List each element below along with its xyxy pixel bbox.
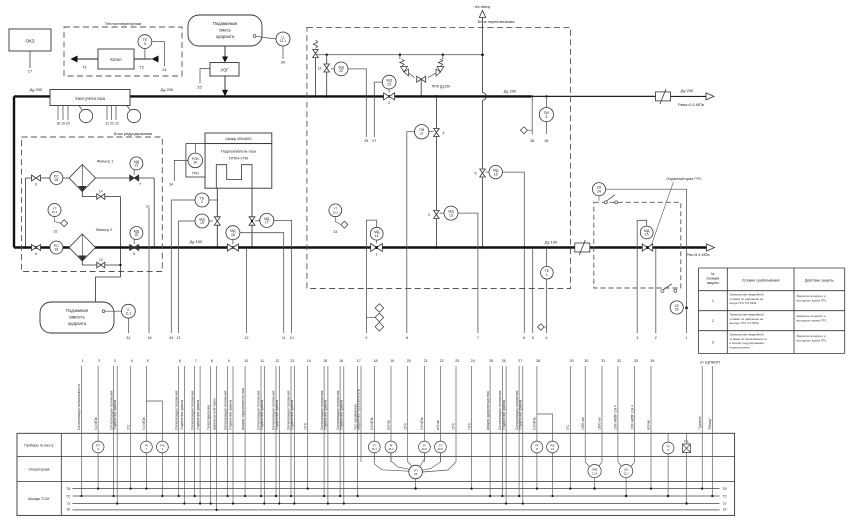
valve heater right [249, 217, 255, 225]
svg-text:Фильтр 2: Фильтр 2 [96, 227, 114, 232]
node drain junction [119, 264, 121, 266]
svg-text:ГПН: ГПН [192, 172, 200, 176]
enclosure guard crane [594, 202, 681, 288]
svg-text:FSL: FSL [684, 440, 690, 444]
svg-text:выходного крана ГРС: выходного крана ГРС [797, 318, 828, 322]
svg-text:25: 25 [197, 86, 201, 90]
svg-text:33: 33 [634, 359, 638, 363]
wire conv col23 [423, 462, 457, 472]
wire stub 2 [655, 248, 657, 334]
svg-text:м3/час: м3/час [387, 419, 391, 430]
node upper exit pipe [671, 95, 707, 97]
svg-text:10: 10 [99, 258, 103, 262]
svg-text:12.1: 12.1 [52, 210, 58, 214]
svg-text:ТИ: ТИ [66, 487, 71, 491]
instrument LL11.2 [102, 310, 105, 313]
instrument QS12.1 [620, 465, 633, 478]
wire stub 34 long [170, 200, 172, 333]
svg-text:Операторная: Операторная [29, 468, 50, 472]
svg-text:РI: РI [390, 443, 393, 447]
svg-text:27: 27 [518, 359, 522, 363]
svg-text:ТС: ТС [723, 494, 728, 498]
svg-text:16: 16 [339, 359, 343, 363]
svg-text:5: 5 [147, 359, 149, 363]
svg-text:4: 4 [546, 336, 548, 340]
svg-text:1600 мм: 1600 мм [598, 416, 602, 430]
instrument ZS24 [592, 183, 605, 196]
switch contact bottom [661, 290, 664, 293]
wire stub 8 [406, 132, 408, 333]
valve 9 [32, 175, 41, 181]
instrument TE1 [541, 266, 554, 279]
wire stub 5b [532, 248, 534, 334]
svg-text:31: 31 [126, 336, 130, 340]
wire metering stubs A [57, 106, 59, 121]
node upper main dots [314, 95, 317, 98]
svg-text:2: 2 [388, 101, 390, 105]
svg-text:2: 2 [655, 336, 657, 340]
svg-text:Блок переключения: Блок переключения [478, 19, 515, 24]
svg-text:18 19 20: 18 19 20 [56, 122, 69, 126]
arrow upper exit [706, 93, 714, 100]
valve 4 [434, 129, 440, 137]
svg-text:30: 30 [194, 161, 198, 165]
svg-text:Сигнализация загазованности: Сигнализация загазованности [77, 384, 81, 430]
svg-text:15: 15 [323, 359, 327, 363]
svg-text:3: 3 [428, 213, 430, 217]
wire vent line lower [482, 178, 484, 248]
instrument PI3 [545, 96, 547, 107]
svg-text:7: 7 [195, 359, 197, 363]
wire upper branch [25, 177, 154, 179]
svg-text:м3/час: м3/час [436, 419, 440, 430]
svg-text:РI: РI [373, 443, 376, 447]
svg-text:7: 7 [139, 183, 141, 187]
svg-text:краном-регулятором: краном-регулятором [212, 398, 216, 430]
svg-text:26.6: 26.6 [422, 447, 428, 451]
svg-text:Сигнализация положения: Сигнализация положения [174, 390, 178, 430]
instrument PI26.6 [419, 441, 431, 453]
svg-text:Фильтр 1: Фильтр 1 [97, 159, 115, 164]
node relief header dots [326, 54, 328, 56]
svg-text:защиты: защиты [707, 281, 720, 285]
svg-text:Управление краном: Управление краном [275, 399, 279, 430]
wire vent jump [483, 93, 487, 101]
wire pozhar [711, 366, 713, 496]
block boiler Kotel [98, 49, 134, 69]
svg-text:10: 10 [244, 359, 248, 363]
svg-text:выходного крана ГРС: выходного крана ГРС [797, 338, 828, 342]
branch col5 [146, 401, 162, 496]
svg-text:РI: РI [423, 443, 426, 447]
svg-text:25: 25 [675, 308, 679, 312]
svg-text:15°С: 15°С [303, 422, 307, 430]
svg-text:одоранта: одоранта [216, 34, 235, 39]
instrument MD23 [382, 75, 396, 89]
svg-text:Авария подогревателя газа: Авария подогревателя газа [241, 388, 245, 430]
node dots reduction [119, 246, 121, 248]
instrument PI26.2 [385, 441, 397, 453]
wire valve12 line [326, 55, 328, 97]
wire branch left riser [24, 178, 26, 248]
svg-text:29: 29 [570, 359, 574, 363]
instrument PI7 [141, 441, 153, 453]
svg-text:Узел учета газа: Узел учета газа [75, 96, 106, 101]
svg-text:18: 18 [148, 336, 152, 340]
svg-text:26: 26 [502, 359, 506, 363]
wire stub 18 [148, 208, 150, 333]
svg-text:от ЩПКОП: от ЩПКОП [700, 360, 720, 365]
valve 14 [97, 194, 105, 200]
switch contact top [604, 201, 607, 204]
svg-text:24: 24 [471, 359, 475, 363]
instrument QT12.1 [48, 204, 61, 217]
instrument MD18 [226, 226, 240, 240]
instrument PCV30 [194, 144, 196, 153]
bus line TI [73, 488, 720, 490]
valve 1 [371, 244, 383, 252]
instrument ZS25 [670, 301, 683, 314]
valve guard crane [642, 244, 652, 251]
filter F2 [69, 234, 95, 261]
instrument MD20 [133, 240, 135, 245]
svg-text:5: 5 [475, 172, 477, 176]
wire MD22 stub 26 [348, 69, 366, 137]
svg-text:14: 14 [307, 359, 311, 363]
wire T1 pipe [77, 58, 98, 60]
svg-text:27: 27 [372, 139, 376, 143]
instrument TE5 [144, 49, 146, 60]
svg-text:Рвх=5,4 МПа: Рвх=5,4 МПа [686, 253, 710, 257]
svg-text:ЛАВ: ЛАВ [592, 468, 598, 472]
block flow metering [50, 90, 130, 106]
instrument PI26.1 [368, 441, 380, 453]
wire lower main pipeline Du100 [14, 246, 707, 248]
svg-text:Управление краном: Управление краном [260, 399, 264, 430]
svg-text:1: 1 [82, 359, 84, 363]
svg-text:12: 12 [275, 359, 279, 363]
block GPN [186, 144, 205, 177]
wire OKZ stub [29, 51, 31, 68]
svg-text:ПГПН-УГМ: ПГПН-УГМ [229, 156, 248, 160]
wire branch right riser [153, 178, 155, 248]
arrow lower exit [707, 244, 715, 251]
svg-text:Котел: Котел [110, 57, 122, 62]
wire filter2 drain [82, 261, 120, 265]
sensor diamonds stub9 [375, 304, 384, 313]
wire filter1 drain [82, 192, 120, 197]
svg-text:70°С: 70°С [467, 422, 471, 430]
matrix row line 1 [17, 456, 735, 458]
svg-text:0,6 МПа: 0,6 МПа [533, 417, 537, 430]
instrument TE2 [171, 199, 195, 201]
svg-text:20: 20 [134, 233, 138, 237]
insulating joint lower [575, 243, 590, 252]
wire UOG left stub [200, 69, 210, 84]
relief valve left [313, 40, 317, 49]
wire stub 12 [246, 248, 248, 334]
table protection grid [699, 267, 845, 269]
svg-text:21: 21 [424, 359, 428, 363]
valve 7 [130, 175, 139, 181]
svg-text:18: 18 [231, 233, 235, 237]
svg-text:выходного крана ГРС: выходного крана ГРС [797, 298, 828, 302]
svg-text:ППК Ду150: ППК Ду150 [432, 85, 451, 89]
svg-text:21 22 23: 21 22 23 [105, 122, 118, 126]
svg-text:13: 13 [176, 336, 180, 340]
svg-text:1: 1 [376, 253, 378, 257]
wire relief header [317, 54, 483, 56]
svg-text:9: 9 [365, 336, 367, 340]
svg-text:емкость: емкость [69, 315, 85, 320]
svg-text:3: 3 [636, 336, 638, 340]
svg-text:26.5: 26.5 [438, 447, 444, 451]
svg-text:30: 30 [281, 61, 285, 65]
svg-text:Ду 100: Ду 100 [190, 239, 203, 244]
heater coil [216, 165, 252, 189]
svg-text:Сигнализация положения: Сигнализация положения [223, 390, 227, 430]
svg-text:одоранта: одоранта [68, 321, 87, 326]
svg-text:Т2: Т2 [139, 65, 144, 70]
svg-text:34: 34 [650, 359, 654, 363]
svg-text:8: 8 [35, 252, 37, 256]
wire MD23 stub 27 [374, 82, 382, 137]
svg-text:31: 31 [601, 359, 605, 363]
svg-text:13: 13 [449, 213, 453, 217]
instrument MD19 [178, 220, 195, 222]
svg-text:Сигнализация положения: Сигнализация положения [190, 390, 194, 430]
svg-text:34: 34 [169, 336, 173, 340]
svg-text:10% НКПР СН 4: 10% НКПР СН 4 [614, 405, 618, 430]
arrow vent stack [479, 11, 485, 18]
svg-text:28: 28 [536, 359, 540, 363]
svg-text:14: 14 [375, 234, 379, 238]
svg-text:Управление краном: Управление краном [113, 399, 117, 430]
svg-text:15°С: 15°С [403, 422, 407, 430]
svg-text:26: 26 [54, 178, 58, 182]
svg-text:11: 11 [282, 336, 286, 340]
instrument MD22 [331, 68, 334, 70]
svg-text:12: 12 [245, 336, 249, 340]
svg-text:28: 28 [544, 139, 548, 143]
valve 6 [130, 245, 139, 251]
block UOG [210, 63, 239, 77]
svg-text:5°С: 5°С [566, 424, 570, 430]
svg-text:Шкаф 400х600: Шкаф 400х600 [225, 137, 251, 141]
svg-text:0,6 МПа: 0,6 МПа [370, 417, 374, 430]
sensor diamond 32 [61, 220, 68, 227]
instrument QT12.2 [329, 204, 342, 217]
wire vent line upper [482, 18, 484, 93]
wire drain riser [96, 197, 121, 305]
svg-text:3°С: 3°С [126, 424, 130, 430]
instrument MD13 [440, 212, 445, 214]
svg-text:Теплогенераторная: Теплогенераторная [105, 21, 141, 26]
svg-text:1000 мм: 1000 мм [581, 416, 585, 430]
svg-text:5,4 МПа: 5,4 МПа [142, 417, 146, 430]
relief PPK right [442, 55, 444, 59]
svg-text:33: 33 [333, 230, 337, 234]
block OKZ [9, 29, 51, 51]
svg-text:Т1: Т1 [82, 65, 87, 70]
svg-text:13: 13 [290, 359, 294, 363]
svg-text:Ду 200: Ду 200 [161, 87, 174, 92]
branch col28 [537, 414, 553, 496]
svg-text:ТИ: ТИ [723, 487, 728, 491]
wire conv col30 [585, 462, 589, 467]
relief PPK left [399, 55, 401, 59]
valve 8 [32, 245, 41, 251]
wire conv col33 [631, 462, 635, 467]
wire UOG down [224, 76, 226, 90]
svg-text:Блок редуцирования: Блок редуцирования [114, 131, 153, 136]
svg-text:6: 6 [179, 359, 181, 363]
wire valve1 bracket [366, 220, 376, 333]
valve 10 [97, 262, 105, 268]
wire conv col31 [599, 462, 602, 467]
block heater cabinet head [205, 133, 272, 144]
svg-text:10: 10 [290, 336, 294, 340]
svg-text:18: 18 [54, 248, 58, 252]
svg-text:УОГ: УОГ [220, 68, 229, 73]
instrument PC26 [50, 172, 63, 185]
svg-text:переключения: переключения [730, 345, 750, 349]
svg-text:Шкафы ТСАУ: Шкафы ТСАУ [28, 497, 50, 501]
svg-text:17: 17 [357, 359, 361, 363]
arrow T1 [71, 56, 78, 63]
svg-text:26: 26 [414, 472, 418, 476]
valve 5 [480, 169, 486, 177]
instrument PC18 [50, 241, 63, 254]
svg-text:Ду 200: Ду 200 [681, 88, 694, 93]
instrument TU4 [667, 433, 669, 442]
svg-text:19: 19 [200, 221, 204, 225]
svg-text:Подземная: Подземная [66, 308, 88, 313]
instrument MD15 [640, 226, 653, 239]
svg-text:7: 7 [477, 336, 479, 340]
wire conv col32 [618, 462, 622, 467]
svg-text:16: 16 [494, 172, 498, 176]
instrument PI8 [531, 441, 543, 453]
svg-text:8: 8 [406, 336, 408, 340]
svg-text:10% НКПР СН 4: 10% НКПР СН 4 [630, 405, 634, 430]
svg-text:На свечу: На свечу [475, 5, 491, 9]
svg-text:26.1: 26.1 [372, 447, 378, 451]
wire conv col21 [420, 453, 424, 466]
svg-text:26: 26 [364, 139, 368, 143]
svg-text:Телеуправление: Телеуправление [206, 405, 210, 430]
bus line TP [73, 509, 720, 511]
instrument LAB11.3 [588, 465, 601, 478]
instrument PIS10 [547, 441, 559, 453]
svg-text:входе ГРС 5,6 МПа: входе ГРС 5,6 МПа [730, 301, 757, 305]
svg-text:24: 24 [162, 68, 166, 72]
svg-text:24: 24 [597, 189, 601, 193]
svg-text:6: 6 [133, 252, 135, 256]
svg-text:Подогреватель газа: Подогреватель газа [221, 150, 257, 154]
sensor diamond 4b [538, 324, 545, 331]
svg-text:20: 20 [407, 359, 411, 363]
svg-text:Рвых=0,3 МПа: Рвых=0,3 МПа [678, 103, 705, 107]
svg-text:3: 3 [114, 359, 116, 363]
sensor diamond 33 [341, 221, 348, 228]
node heater pipe dots [216, 246, 218, 248]
svg-text:17: 17 [28, 70, 32, 74]
vessel odorant tank [40, 302, 114, 333]
svg-text:2: 2 [712, 319, 714, 323]
svg-text:10: 10 [551, 447, 554, 451]
wire conv col18 [374, 453, 409, 471]
svg-text:Управление краном: Управление краном [196, 399, 200, 430]
valve three-way PPK [417, 76, 426, 82]
svg-text:9: 9 [228, 359, 230, 363]
wire stub 4b [546, 248, 548, 334]
svg-text:Подаваемая: Подаваемая [213, 21, 237, 26]
svg-text:4: 4 [443, 131, 445, 135]
svg-text:Действие защиты: Действие защиты [805, 279, 834, 283]
instrument PT6 [92, 441, 104, 453]
block heater body [205, 144, 272, 189]
instrument UP26 [409, 465, 423, 479]
wire heater left pipe [216, 188, 218, 247]
wire upper main pipeline Du200 [14, 95, 531, 97]
wire stub 1 [686, 308, 688, 333]
wire PCV30 left [174, 160, 188, 181]
svg-text:0,6 МПа: 0,6 МПа [420, 417, 424, 430]
svg-text:м3/час: м3/час [647, 419, 651, 430]
svg-text:3: 3 [545, 115, 547, 119]
valve heater left [214, 217, 220, 225]
bus line TU [73, 503, 720, 505]
svg-text:выходе ГРС 0,6 МПа: выходе ГРС 0,6 МПа [730, 321, 759, 325]
svg-text:15°С: 15°С [452, 422, 456, 430]
valve heater main bypass [227, 244, 238, 251]
wire MD15 bracket [637, 220, 647, 333]
svg-text:30: 30 [584, 359, 588, 363]
svg-text:Управление краном: Управление краном [180, 399, 184, 430]
svg-text:ОКЗ: ОКЗ [26, 39, 35, 44]
label switching block [468, 18, 524, 25]
svg-text:14: 14 [99, 190, 103, 194]
wire conv col22 [422, 453, 440, 470]
svg-text:РIS: РIS [160, 443, 165, 447]
enclosure boiler room [64, 27, 182, 76]
svg-text:"Пожар": "Пожар" [708, 417, 712, 430]
instrument MD21 [133, 170, 135, 175]
svg-text:QS: QS [624, 468, 628, 472]
svg-text:11.1: 11.1 [280, 39, 286, 43]
svg-text:8: 8 [211, 359, 213, 363]
svg-text:1: 1 [712, 299, 714, 303]
wire T2 pipe [134, 58, 152, 60]
svg-text:5,4 МПа: 5,4 МПа [94, 417, 98, 430]
svg-text:22: 22 [339, 69, 343, 73]
wire stub 26b [531, 96, 533, 134]
svg-text:26.2: 26.2 [388, 447, 394, 451]
instrument meter circle A [79, 106, 82, 111]
svg-text:Авария одоризатора газа: Авария одоризатора газа [486, 391, 490, 430]
sensor diamond 26b [520, 127, 527, 134]
wire left riser pipe [13, 96, 15, 247]
svg-text:смесь: смесь [219, 28, 231, 33]
svg-text:6: 6 [523, 336, 525, 340]
wire vent line mid [482, 100, 484, 169]
arrow UOG to main [222, 90, 228, 97]
svg-text:Управление краном: Управление краном [502, 399, 506, 430]
wire MD18 right stub 11 [240, 233, 284, 333]
svg-text:Условие срабатывания: Условие срабатывания [742, 279, 780, 283]
svg-text:32: 32 [54, 230, 58, 234]
